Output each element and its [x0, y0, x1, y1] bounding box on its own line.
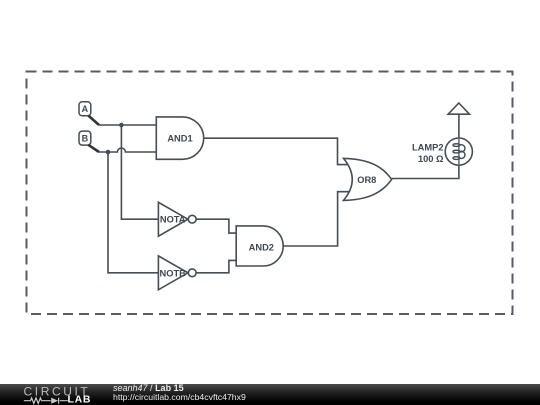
junction dot node A: [119, 123, 124, 128]
wire through lamp: [458, 138, 460, 165]
wire AND2 output to OR8 bottom input: [283, 192, 349, 246]
schematic dashed border: [27, 72, 513, 315]
svg-text:B: B: [82, 134, 89, 144]
power flag triangle: [448, 103, 469, 114]
node flag B box: [79, 131, 91, 145]
wire NOTB output to AND2 bottom input: [196, 260, 236, 272]
svg-text:NOTA: NOTA: [160, 215, 186, 225]
wire lamp top to power flag: [458, 114, 460, 138]
lamp LAMP2 circle: [445, 138, 472, 165]
wire A to AND1: [99, 124, 156, 126]
or-gate OR8: [344, 158, 392, 200]
svg-text:NOTB: NOTB: [160, 268, 187, 278]
and-gate AND1: [156, 117, 203, 159]
logo diode: [51, 398, 58, 404]
wire node A down to NOTA input: [121, 125, 158, 219]
svg-text:AND1: AND1: [167, 134, 192, 144]
inverter NOTB: [158, 256, 188, 290]
node flag B pole: [88, 145, 99, 152]
wire B to AND1 with hop: [99, 148, 156, 152]
svg-text:AND2: AND2: [249, 243, 274, 253]
wire OR8 output to lamp: [392, 165, 459, 178]
svg-text:LAMP2: LAMP2: [412, 143, 444, 153]
junction dot node B: [106, 150, 111, 155]
wire node B down to NOTB input: [108, 152, 158, 273]
inverter NOTA: [158, 202, 188, 236]
svg-text:OR8: OR8: [357, 175, 376, 185]
svg-text:100 Ω: 100 Ω: [418, 154, 444, 164]
and-gate AND2: [236, 226, 283, 266]
svg-text:A: A: [82, 104, 89, 114]
svg-text:LAB: LAB: [68, 393, 92, 405]
lamp filament coil: [453, 144, 465, 160]
node flag A box: [79, 102, 91, 116]
logo circuit squiggle: [24, 398, 68, 404]
wire AND1 output to OR8 top input: [204, 138, 349, 164]
footer bar: [0, 384, 540, 405]
node flag A pole: [88, 116, 99, 126]
wire NOTA output to AND2 top input: [196, 219, 236, 233]
